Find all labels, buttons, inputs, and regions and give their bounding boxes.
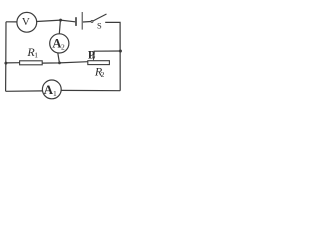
svg-text:1: 1 [34, 51, 38, 60]
svg-text:2: 2 [101, 70, 105, 79]
svg-text:1: 1 [53, 89, 57, 98]
svg-text:2: 2 [61, 43, 65, 52]
svg-text:S: S [97, 20, 102, 30]
svg-text:P: P [88, 49, 95, 61]
svg-text:V: V [22, 16, 30, 28]
